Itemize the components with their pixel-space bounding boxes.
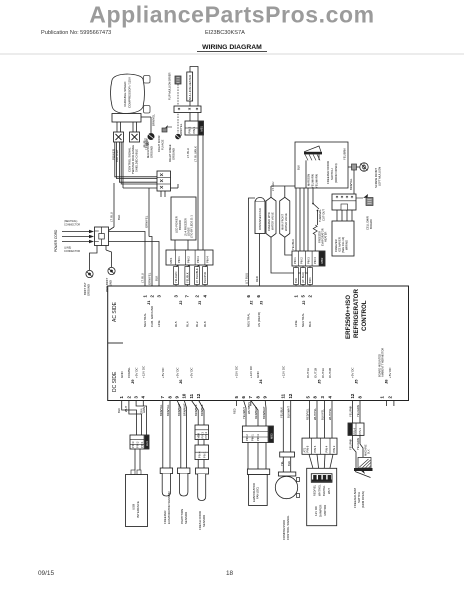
svg-text:OUT1B: OUT1B xyxy=(313,368,317,378)
svg-text:RED: RED xyxy=(233,408,237,414)
svg-text:BRKT PLT: BRKT PLT xyxy=(83,282,87,295)
svg-text:PIN 4: PIN 4 xyxy=(206,256,210,263)
svg-text:RED: RED xyxy=(255,276,259,282)
power cord terminal block xyxy=(95,227,109,246)
svg-text:OUT1A: OUT1A xyxy=(306,368,310,378)
svg-text:SENSOR: SENSOR xyxy=(202,515,206,527)
svg-text:LH1: LH1 xyxy=(145,441,149,446)
svg-text:RL8: RL8 xyxy=(203,321,207,327)
svg-text:BRN/BLK: BRN/BLK xyxy=(200,404,204,416)
svg-text:YEL/WHT: YEL/WHT xyxy=(242,407,246,419)
connector plug control (X marks) xyxy=(130,132,140,142)
fresh food sensor connector MT1 xyxy=(197,440,199,446)
svg-text:BRN/WHT: BRN/WHT xyxy=(262,406,266,419)
usb interface box xyxy=(126,475,148,527)
icemaker box xyxy=(332,221,354,256)
svg-text:CUT-OUT: CUT-OUT xyxy=(322,209,326,221)
damper motor pin strip xyxy=(311,474,332,483)
svg-text:BRN/BLK: BRN/BLK xyxy=(194,404,198,416)
svg-text:LT. BLU: LT. BLU xyxy=(186,148,190,158)
wires J9 to LH1 xyxy=(122,401,137,436)
svg-text:PIN 2: PIN 2 xyxy=(188,126,192,133)
svg-text:FREEZER WTR: FREEZER WTR xyxy=(267,212,271,231)
svg-text:PIN 1: PIN 1 xyxy=(177,256,181,263)
svg-text:RL2: RL2 xyxy=(195,321,199,327)
svg-text:LINE: LINE xyxy=(157,320,161,327)
water valve 2 (main) xyxy=(280,197,290,237)
svg-text:+5V DC: +5V DC xyxy=(161,367,165,378)
connector MB2 xyxy=(292,251,325,266)
svg-text:VARIABLE SPEED: VARIABLE SPEED xyxy=(123,81,127,107)
svg-text:NEUTRAL: NEUTRAL xyxy=(301,313,305,327)
svg-text:BRN/WHT: BRN/WHT xyxy=(183,403,187,416)
svg-text:PIN 4: PIN 4 xyxy=(353,427,357,434)
svg-text:12V DC: 12V DC xyxy=(314,506,318,516)
defrost heater zigzag xyxy=(313,225,317,235)
svg-text:DISPENSER FAN: DISPENSER FAN xyxy=(258,208,262,230)
svg-text:BRN/WHT: BRN/WHT xyxy=(177,403,181,416)
svg-text:AS (DEFR): AS (DEFR) xyxy=(257,312,261,327)
wire BRN/YEL from screw down xyxy=(353,170,355,194)
svg-text:LINE: LINE xyxy=(294,320,298,327)
LED power board xyxy=(171,197,196,240)
fresh food sensor body xyxy=(196,468,209,474)
svg-text:(DOOR OPEN): (DOOR OPEN) xyxy=(334,163,338,183)
svg-text:POWER CORD: POWER CORD xyxy=(54,229,58,252)
svg-text:J9: J9 xyxy=(130,379,135,384)
connector MC1 xyxy=(166,250,213,265)
wire BRN/YEL from terminal box to ground xyxy=(141,116,151,118)
wires door switch to MB2 xyxy=(295,188,297,251)
wires power connector to J1 xyxy=(109,232,146,287)
crossbar connector mullion xyxy=(174,106,201,113)
connector AT1 xyxy=(302,438,337,454)
svg-text:PIN 3: PIN 3 xyxy=(332,445,336,452)
svg-text:J5: J5 xyxy=(354,379,359,384)
wires MB3 to fan xyxy=(247,443,249,470)
svg-text:PIN 3: PIN 3 xyxy=(200,431,204,438)
svg-text:12: 12 xyxy=(350,393,355,398)
svg-text:BOARD: BOARD xyxy=(369,219,373,229)
svg-text:+5V DC: +5V DC xyxy=(190,367,194,378)
svg-text:J2: J2 xyxy=(301,300,306,305)
svg-text:WHT: WHT xyxy=(124,406,128,412)
svg-text:PIN 1: PIN 1 xyxy=(203,451,207,458)
svg-text:YEL/PNK: YEL/PNK xyxy=(349,405,353,417)
wire LT.BLU vertical to power connector xyxy=(113,183,115,227)
svg-text:BLK/YEL: BLK/YEL xyxy=(321,409,325,420)
svg-text:EVAPORATOR SENSOR: EVAPORATOR SENSOR xyxy=(167,491,171,524)
svg-text:WATER VALVE: WATER VALVE xyxy=(271,212,275,230)
svg-text:PIN 6: PIN 6 xyxy=(306,445,310,452)
svg-text:RIGHT HINGE: RIGHT HINGE xyxy=(168,144,172,162)
wire label plates MC1 to board J2/J3 xyxy=(176,265,179,267)
svg-text:J3: J3 xyxy=(198,301,202,305)
compressor signal connector bar xyxy=(280,452,295,457)
svg-text:PIN 3: PIN 3 xyxy=(196,256,200,263)
svg-text:BOARD: BOARD xyxy=(178,220,182,230)
svg-text:CONTROL SIGNAL: CONTROL SIGNAL xyxy=(286,515,290,540)
compressor outline (variable speed compressor) xyxy=(111,74,145,114)
svg-text:PIN 3: PIN 3 xyxy=(256,434,260,441)
right door flange arrow xyxy=(163,125,168,130)
svg-text:RED/YEL: RED/YEL xyxy=(313,484,317,496)
svg-text:GRN/YEL: GRN/YEL xyxy=(179,123,183,136)
svg-text:OUT2B: OUT2B xyxy=(328,368,332,378)
fresh food sensor connector MB4 xyxy=(192,401,199,426)
svg-text:PIN 4: PIN 4 xyxy=(325,445,329,452)
svg-text:NEUTRAL: NEUTRAL xyxy=(143,313,147,327)
wire BLK vertical xyxy=(122,142,124,188)
svg-text:YEL/BRN: YEL/BRN xyxy=(343,148,347,160)
svg-text:PIN 4: PIN 4 xyxy=(313,257,317,264)
compressor terminal lug top-right xyxy=(144,76,151,84)
svg-text:PIN 5: PIN 5 xyxy=(313,445,317,452)
freezer evaporator sensor xyxy=(162,401,164,469)
junction connector 3-pin xyxy=(157,171,171,191)
svg-text:PIN 1: PIN 1 xyxy=(293,257,297,264)
svg-text:BLK: BLK xyxy=(368,449,371,454)
freezer arm switch symbol xyxy=(358,458,371,469)
AC/DC divider notch xyxy=(108,342,123,344)
svg-text:YEL/GRN: YEL/GRN xyxy=(356,405,360,417)
svg-text:(LT. BLU): (LT. BLU) xyxy=(301,272,305,283)
svg-text:GND: GND xyxy=(256,371,260,379)
svg-text:J6: J6 xyxy=(178,379,183,384)
svg-text:YEL/MARN: YEL/MARN xyxy=(315,174,319,188)
svg-text:RL5: RL5 xyxy=(174,321,178,327)
svg-text:LT. BLU: LT. BLU xyxy=(141,273,145,283)
svg-text:(ARM OPEN): (ARM OPEN) xyxy=(361,491,365,508)
wire pair compressor to junction xyxy=(115,142,157,177)
svg-text:BLK: BLK xyxy=(308,321,312,327)
svg-text:BLK/YEL: BLK/YEL xyxy=(322,485,326,496)
svg-text:CELL DWR: CELL DWR xyxy=(366,216,370,230)
svg-text:PIN 2: PIN 2 xyxy=(136,441,140,448)
dispenser fan box xyxy=(255,201,265,234)
svg-text:RED/WHT: RED/WHT xyxy=(254,406,258,419)
svg-text:GRN/YEL: GRN/YEL xyxy=(148,272,152,285)
thermal cut-out switch xyxy=(312,203,314,205)
partition sensor xyxy=(177,401,181,469)
svg-text:BLK/WHT: BLK/WHT xyxy=(287,406,291,418)
screw front left mullion lead xyxy=(348,166,352,168)
svg-text:GROUND: GROUND xyxy=(172,148,176,160)
svg-text:CONNECTOR: CONNECTOR xyxy=(64,224,80,227)
svg-text:Publication No: 5995667473: Publication No: 5995667473 xyxy=(41,30,111,36)
svg-text:FLIP MULLION DRIER: FLIP MULLION DRIER xyxy=(168,73,172,100)
svg-text:PIN 1: PIN 1 xyxy=(251,434,255,441)
svg-text:MB1: MB1 xyxy=(200,125,204,131)
svg-text:WHT/YEL: WHT/YEL xyxy=(317,484,321,496)
svg-text:BLK: BLK xyxy=(155,276,159,281)
svg-text:HEATER: HEATER xyxy=(324,232,328,242)
svg-text:PIN 4: PIN 4 xyxy=(198,451,202,458)
compressor terminal box xyxy=(112,114,141,123)
valve top feed wires xyxy=(270,186,272,197)
wire RED dispenser to J3-6 xyxy=(259,234,261,287)
svg-text:SCREW FRONT: SCREW FRONT xyxy=(374,168,378,188)
svg-text:CONNECTOR: CONNECTOR xyxy=(64,250,80,253)
svg-text:DC SIDE: DC SIDE xyxy=(112,371,118,392)
svg-text:BRN/YEL: BRN/YEL xyxy=(152,114,156,126)
evaporator fan box xyxy=(249,475,268,506)
svg-text:BLU/PNK: BLU/PNK xyxy=(203,272,207,283)
svg-text:(LT. BLU): (LT. BLU) xyxy=(244,273,248,284)
ground mach compartment xyxy=(150,128,152,133)
svg-text:+12V DC: +12V DC xyxy=(282,365,286,378)
svg-text:BLK: BLK xyxy=(117,215,121,220)
wires LH1 to USB xyxy=(134,449,136,470)
svg-text:LT. BLU: LT. BLU xyxy=(110,212,114,222)
water valve 1 (freezer) xyxy=(266,197,276,237)
wires J5 to MB5 xyxy=(352,401,354,424)
door switch leads xyxy=(305,160,307,188)
svg-text:MULLION HEATER: MULLION HEATER xyxy=(188,75,192,100)
wires J4 to MB3 xyxy=(244,401,246,427)
fill tube heater component xyxy=(366,198,373,206)
svg-text:LT. BLU/BLK: LT. BLU/BLK xyxy=(194,146,198,162)
wire J2-6 up to dispenser fan dome xyxy=(249,198,256,286)
svg-text:LEFT MULLION: LEFT MULLION xyxy=(378,167,382,186)
connector MB5 xyxy=(348,423,364,435)
svg-text:MOTOR: MOTOR xyxy=(323,505,327,516)
svg-text:AppliancePartsPros.com: AppliancePartsPros.com xyxy=(89,2,374,28)
svg-text:BRN/YEL: BRN/YEL xyxy=(159,404,163,416)
connector MB1 xyxy=(185,121,204,135)
svg-text:MB4: MB4 xyxy=(197,433,201,439)
svg-text:YEL/GRN: YEL/GRN xyxy=(356,438,360,450)
icemaker connector xyxy=(332,194,356,210)
wires J4-11/12 to compressor signal xyxy=(282,401,284,453)
svg-text:MB2: MB2 xyxy=(320,257,324,263)
svg-text:RIGHT DOOR: RIGHT DOOR xyxy=(157,135,161,152)
svg-text:PIN 2: PIN 2 xyxy=(245,434,249,441)
svg-text:YEL/PNK: YEL/PNK xyxy=(349,438,353,450)
wires MB1 down to MC1 xyxy=(197,135,199,250)
connector LH1 xyxy=(130,435,149,449)
valve bottom wires xyxy=(271,237,310,273)
freezer door assembly box xyxy=(295,142,348,188)
svg-text:GND: GND xyxy=(120,371,124,379)
svg-text:TWISTED PAIR 22AWG: TWISTED PAIR 22AWG xyxy=(131,145,135,174)
door switch triangle flag xyxy=(304,146,321,152)
svg-text:+5V DC: +5V DC xyxy=(134,367,138,378)
svg-text:RED/YEL: RED/YEL xyxy=(306,408,310,420)
svg-text:THERMAL: THERMAL xyxy=(318,209,322,222)
power cord arrows xyxy=(62,231,91,233)
damper motor box xyxy=(307,468,337,525)
svg-text:PIN 1: PIN 1 xyxy=(140,441,144,448)
svg-text:DAMPER: DAMPER xyxy=(319,505,323,517)
svg-text:COMPRESSOR / 115V: COMPRESSOR / 115V xyxy=(128,77,132,108)
svg-text:+5V DC: +5V DC xyxy=(351,367,355,378)
svg-text:MC1: MC1 xyxy=(169,257,173,263)
filter mullion drier component xyxy=(175,76,181,84)
svg-text:J2: J2 xyxy=(249,300,254,305)
svg-text:PIN 1: PIN 1 xyxy=(192,126,196,133)
svg-text:BLK: BLK xyxy=(297,165,301,170)
svg-text:J8: J8 xyxy=(384,379,389,384)
svg-text:J4: J4 xyxy=(258,379,263,384)
svg-text:YEL/BLK: YEL/BLK xyxy=(186,272,190,283)
svg-text:USB: USB xyxy=(132,504,136,510)
svg-text:WIRING DIAGRAM: WIRING DIAGRAM xyxy=(202,44,262,51)
svg-text:PIN 3: PIN 3 xyxy=(358,427,362,434)
svg-text:FAN (DC): FAN (DC) xyxy=(256,487,260,499)
ground right hinge xyxy=(175,134,181,140)
wire junction to mullion dashed grn/yel xyxy=(171,187,179,189)
compressor control signal circle xyxy=(275,476,297,498)
svg-text:11: 11 xyxy=(281,393,286,398)
wires icemaker connector down xyxy=(336,210,338,221)
stub wires below unused board pins xyxy=(142,401,144,407)
connector MB3 xyxy=(242,426,273,443)
svg-text:AC SIDE: AC SIDE xyxy=(112,301,118,322)
wires junction to LED board xyxy=(160,191,162,197)
svg-text:J3: J3 xyxy=(260,301,264,305)
svg-text:PIN 2: PIN 2 xyxy=(187,256,191,263)
svg-text:CONTROL SIGNAL: CONTROL SIGNAL xyxy=(128,147,132,172)
svg-text:CAB. GROUND: CAB. GROUND xyxy=(150,305,154,327)
svg-text:LT-D BY LEDS J1-1: LT-D BY LEDS J1-1 xyxy=(190,215,194,238)
svg-text:+12V DC: +12V DC xyxy=(249,365,253,378)
svg-text:CONTROL: CONTROL xyxy=(361,300,368,331)
svg-text:09/15: 09/15 xyxy=(38,570,54,577)
compressor terminal lug bottom-right xyxy=(144,106,151,114)
svg-text:ORN: ORN xyxy=(139,408,143,414)
wires MB5 to arm switch xyxy=(352,435,354,448)
svg-text:YEL/BLK: YEL/BLK xyxy=(279,407,283,418)
ground compressor xyxy=(105,246,107,251)
evaporator fan connector bar xyxy=(247,469,269,475)
svg-text:PIN 3: PIN 3 xyxy=(131,441,135,448)
svg-text:SENSOR: SENSOR xyxy=(184,512,188,524)
svg-text:12: 12 xyxy=(288,393,293,398)
svg-text:BRN/YEL: BRN/YEL xyxy=(166,404,170,416)
wires AT1 fan to damper motor xyxy=(309,454,315,473)
svg-text:GROUND: GROUND xyxy=(150,146,154,158)
wire GRN/YEL to junction xyxy=(148,188,150,237)
svg-text:YEL/BLU: YEL/BLU xyxy=(291,239,295,250)
svg-text:ERF2500++ISO: ERF2500++ISO xyxy=(345,295,352,339)
wire label plates MB2 to board J2 xyxy=(295,266,297,268)
svg-text:YEL/MARN: YEL/MARN xyxy=(311,174,315,188)
svg-text:REFRIGERATOR: REFRIGERATOR xyxy=(353,289,360,338)
door switch bar xyxy=(304,152,322,155)
svg-text:COMNL: COMNL xyxy=(127,367,131,378)
svg-text:11: 11 xyxy=(189,393,194,398)
svg-text:18: 18 xyxy=(226,570,234,577)
svg-text:AMBIENT THERMISTOR: AMBIENT THERMISTOR xyxy=(381,348,385,377)
fill tube heater arrow xyxy=(363,194,368,198)
svg-text:12: 12 xyxy=(196,393,201,398)
ground bracket plate xyxy=(90,246,98,271)
svg-text:RL4: RL4 xyxy=(186,321,190,327)
svg-text:YEL/GRN: YEL/GRN xyxy=(174,271,178,283)
svg-text:PIN 2: PIN 2 xyxy=(300,257,304,264)
svg-text:MB3: MB3 xyxy=(270,433,274,439)
wire dashed grn/yel mullion ground xyxy=(177,84,179,133)
svg-text:+12V DC: +12V DC xyxy=(142,365,146,378)
svg-text:WHT/YEL: WHT/YEL xyxy=(328,408,332,420)
svg-text:NEUTRAL: NEUTRAL xyxy=(247,313,251,327)
svg-text:(SEE FIG 10): (SEE FIG 10) xyxy=(341,237,345,253)
screw symbol xyxy=(360,163,368,171)
mullion heater xyxy=(187,72,193,101)
svg-text:WATER VALVE: WATER VALVE xyxy=(284,213,288,231)
svg-text:INTERFACE: INTERFACE xyxy=(136,501,140,518)
svg-text:MAIN FRONT: MAIN FRONT xyxy=(281,213,285,230)
svg-text:+5V DC: +5V DC xyxy=(175,367,179,378)
refrigerator control board ENF2500 xyxy=(108,286,409,401)
svg-text:GRN/YEL: GRN/YEL xyxy=(145,215,149,228)
svg-text:BRN: BRN xyxy=(308,277,312,283)
svg-text:PIN 3: PIN 3 xyxy=(306,257,310,264)
wires LED board to MC1 xyxy=(174,240,176,250)
svg-text:J2: J2 xyxy=(178,300,183,305)
svg-text:BLK: BLK xyxy=(117,408,121,413)
svg-text:J1: J1 xyxy=(146,300,151,305)
svg-text:BLK: BLK xyxy=(294,278,298,283)
svg-text:WHT/YEL: WHT/YEL xyxy=(313,408,317,420)
wire pair control signal from terminal box xyxy=(132,122,134,132)
svg-text:+5V DC: +5V DC xyxy=(388,367,392,378)
connector plug power (X marks) xyxy=(114,132,124,142)
svg-text:GROUND: GROUND xyxy=(87,284,91,296)
mullion circuit loop xyxy=(190,67,198,122)
wires J5 to AT1 xyxy=(309,401,311,439)
svg-text:MAROON: MAROON xyxy=(307,174,311,186)
svg-text:BRN/YEL: BRN/YEL xyxy=(349,178,353,190)
svg-text:MACH COMP: MACH COMP xyxy=(146,141,150,158)
wire pair power from terminal box xyxy=(116,122,118,132)
svg-text:WIRING: WIRING xyxy=(345,240,349,250)
svg-text:J5: J5 xyxy=(317,379,322,384)
svg-text:EI23BC30KS7A: EI23BC30KS7A xyxy=(205,30,245,36)
svg-text:WHT/BRN: WHT/BRN xyxy=(247,402,251,414)
svg-text:WHT: WHT xyxy=(327,488,331,494)
svg-text:SHIELDED CABLE: SHIELDED CABLE xyxy=(135,149,139,172)
door switch hatching xyxy=(305,154,320,160)
compressor signal bar 2 xyxy=(278,472,295,476)
svg-text:OUT3A: OUT3A xyxy=(321,368,325,378)
svg-text:ICE MAKER: ICE MAKER xyxy=(338,237,342,252)
svg-text:PIN 4: PIN 4 xyxy=(204,431,208,438)
usb interface pins xyxy=(131,470,135,475)
svg-text:LT. BLU/BLK: LT. BLU/BLK xyxy=(195,268,199,283)
svg-text:FLANGE: FLANGE xyxy=(161,139,165,150)
svg-text:10: 10 xyxy=(182,393,187,398)
svg-text:FREEZER: FREEZER xyxy=(334,239,338,252)
svg-text:+15V DC: +15V DC xyxy=(235,365,239,378)
